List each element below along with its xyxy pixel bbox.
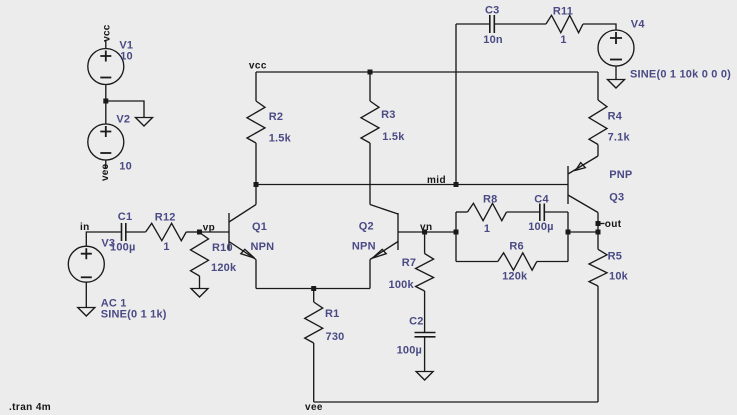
wire V2 bottom stub	[105, 160, 107, 169]
resistor R3	[361, 101, 379, 143]
svg-text:R6: R6	[509, 240, 523, 252]
wire R5 to vee rail	[597, 286, 599, 402]
resistor R2	[247, 101, 265, 143]
svg-text:R10: R10	[212, 242, 233, 254]
svg-text:R1: R1	[325, 308, 339, 320]
svg-text:R8: R8	[483, 193, 497, 205]
wire V3 bottom stub	[85, 282, 87, 307]
wire block top branch left	[456, 211, 468, 213]
svg-text:NPN: NPN	[251, 241, 275, 253]
wire out node to R5	[597, 232, 599, 249]
wire C2 to ground	[424, 337, 426, 372]
svg-text:120k: 120k	[502, 271, 528, 283]
wire block bottom branch left	[456, 261, 498, 263]
svg-text:120k: 120k	[211, 262, 237, 274]
svg-text:out: out	[605, 219, 622, 230]
svg-text:V2: V2	[116, 113, 130, 125]
wire Q1 emitter down	[255, 260, 257, 289]
svg-text:C3: C3	[485, 4, 499, 16]
wire right bar of feedback block	[567, 212, 569, 262]
svg-text:C1: C1	[118, 211, 132, 223]
junction mid-C3drop	[454, 182, 459, 187]
wire R3 to mid rail	[369, 143, 371, 185]
junction out-R5	[596, 230, 601, 235]
wire R10 to ground	[199, 276, 201, 289]
wire R4 to Q3 emitter	[597, 145, 599, 157]
voltage source V3	[68, 246, 104, 282]
node vp junction	[197, 230, 202, 235]
svg-text:in: in	[80, 222, 90, 233]
wire mid rail	[256, 184, 568, 186]
capacitor C1	[122, 223, 126, 241]
svg-text:7.1k: 7.1k	[608, 132, 631, 144]
wire block to out node	[568, 231, 598, 233]
wire R11 to V4	[583, 24, 616, 30]
svg-text:vee: vee	[100, 163, 111, 181]
svg-text:Q1: Q1	[252, 221, 267, 233]
wire V1 top stub	[105, 41, 107, 49]
wire junction to V2 top	[105, 101, 107, 124]
svg-text:V4: V4	[631, 19, 646, 31]
svg-text:SINE(0 1 10k 0 0 0): SINE(0 1 10k 0 0 0)	[630, 69, 731, 81]
wire Q2 collector to mid rail	[369, 185, 371, 205]
resistor R1	[305, 302, 323, 343]
svg-text:10: 10	[120, 51, 133, 63]
wire C1 to R12	[126, 231, 146, 233]
transistor Q3	[568, 156, 598, 213]
svg-text:R12: R12	[155, 212, 176, 224]
voltage source V4	[598, 30, 634, 66]
svg-text:1.5k: 1.5k	[269, 132, 292, 144]
ground at V1/V2 midpoint	[136, 118, 153, 127]
resistor R6	[498, 253, 537, 270]
svg-text:100k: 100k	[389, 279, 415, 291]
wire emitter rail to R1	[313, 289, 315, 303]
junction vn-block left bar	[454, 230, 459, 235]
resistor R8	[468, 203, 507, 220]
transistor Q1	[229, 205, 256, 260]
svg-text:1: 1	[484, 223, 490, 235]
wire R1 to vee rail	[313, 343, 315, 402]
wire V4 bottom stub	[615, 66, 617, 80]
svg-text:100µ: 100µ	[110, 242, 136, 254]
wire vcc rail to R3	[369, 72, 371, 101]
V1 minus sign	[100, 77, 111, 79]
capacitor C4	[540, 204, 545, 222]
wire R6 to right bar	[537, 261, 568, 263]
svg-text:C4: C4	[534, 193, 549, 205]
wire Q2 base to node vn	[398, 231, 456, 233]
wire node in: V3 top up and right to C1	[86, 232, 121, 246]
svg-text:.tran 4m: .tran 4m	[9, 402, 51, 413]
svg-text:100µ: 100µ	[528, 221, 554, 233]
junction vn-R7	[422, 230, 427, 235]
svg-text:R4: R4	[608, 110, 623, 122]
resistor R5	[589, 249, 607, 286]
capacitor C3	[490, 15, 495, 33]
svg-text:730: 730	[326, 331, 345, 343]
wire vee rail	[314, 401, 598, 403]
wire out label stub	[598, 223, 605, 225]
wire R12 to node vp	[186, 231, 199, 233]
svg-text:Q3: Q3	[609, 191, 624, 203]
ground below R10	[191, 289, 208, 298]
wire Q1 collector to mid rail	[255, 185, 257, 205]
voltage source V1	[88, 49, 124, 85]
junction vcc-R3	[368, 70, 373, 75]
junction block right bar-out wire	[566, 230, 571, 235]
V3 plus sign	[81, 248, 92, 259]
wire R2 to mid rail	[255, 143, 257, 185]
wire junction to ground	[106, 101, 144, 118]
wire top rail to C3	[456, 23, 490, 25]
wire node vp to Q1 base	[200, 231, 230, 233]
wire R7 to C2	[424, 291, 426, 333]
V4 plus sign	[610, 32, 622, 44]
svg-text:SINE(0 1 1k): SINE(0 1 1k)	[101, 308, 167, 320]
wire left bar of feedback block	[455, 212, 457, 262]
wire node vn to R7	[424, 232, 426, 254]
resistor R10	[191, 233, 209, 277]
V2 plus sign	[100, 126, 111, 137]
wire C4 to right bar	[544, 211, 568, 213]
svg-text:mid: mid	[427, 175, 446, 186]
ground below V4	[608, 80, 625, 89]
svg-text:R5: R5	[608, 250, 622, 262]
svg-text:C2: C2	[409, 316, 423, 328]
V2 minus sign	[100, 152, 111, 154]
junction node out	[596, 221, 601, 226]
wire vcc rail to R2	[255, 72, 257, 101]
ground below C2	[416, 372, 433, 381]
svg-text:10k: 10k	[609, 271, 629, 283]
junction mid-R2	[254, 182, 259, 187]
wire emitter rail	[256, 288, 370, 290]
wire C3 to R11	[494, 23, 546, 25]
wire V1 bottom to junction	[105, 85, 107, 102]
wire Q3 collector to node out	[597, 213, 599, 233]
V4 minus sign	[610, 59, 622, 61]
svg-text:R11: R11	[553, 6, 573, 18]
svg-text:10n: 10n	[483, 34, 503, 46]
svg-text:R3: R3	[381, 109, 395, 121]
svg-text:R2: R2	[269, 111, 283, 123]
svg-text:vee: vee	[305, 402, 323, 413]
svg-text:Q2: Q2	[359, 221, 374, 233]
resistor R4	[589, 100, 607, 145]
svg-text:100µ: 100µ	[397, 345, 423, 357]
resistor R11	[546, 15, 583, 32]
svg-text:vcc: vcc	[249, 60, 267, 71]
ground below V3	[78, 308, 95, 317]
wire R8 to C4	[507, 211, 540, 213]
transistor Q2	[370, 205, 398, 260]
svg-text:vp: vp	[203, 222, 215, 233]
V1 plus sign	[100, 51, 111, 62]
svg-text:vcc: vcc	[101, 24, 112, 42]
svg-text:10: 10	[119, 161, 132, 173]
svg-text:NPN: NPN	[352, 240, 376, 252]
wire vcc rail	[256, 71, 598, 73]
svg-text:1: 1	[560, 34, 566, 46]
V3 minus sign	[81, 276, 92, 278]
capacitor C2	[415, 333, 436, 337]
wire C3 drop from top rail to mid rail	[455, 24, 457, 185]
svg-text:vn: vn	[420, 222, 432, 233]
wire vcc rail corner to R4	[597, 72, 599, 100]
junction V1-V2	[103, 99, 108, 104]
resistor R12	[146, 223, 187, 240]
junction emitter rail-R1	[311, 286, 316, 291]
voltage source V2	[88, 124, 124, 160]
svg-text:1: 1	[163, 241, 169, 253]
wire Q2 emitter down	[369, 260, 371, 289]
resistor R7	[416, 254, 434, 292]
svg-text:1.5k: 1.5k	[382, 131, 405, 143]
svg-text:PNP: PNP	[609, 169, 632, 181]
svg-text:R7: R7	[402, 257, 416, 269]
